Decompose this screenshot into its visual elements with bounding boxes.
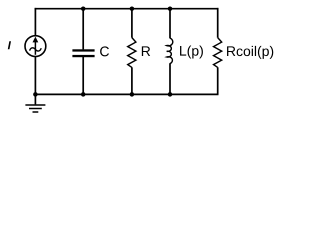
label R xyxy=(142,46,150,56)
wire R top xyxy=(131,8,133,38)
wire top rail xyxy=(35,8,219,10)
node dot L top xyxy=(168,6,173,11)
wire source bottom xyxy=(34,57,36,95)
wire bottom rail xyxy=(35,93,219,95)
current source I (AC) xyxy=(25,36,46,57)
label Rcoil(p) xyxy=(227,46,273,59)
node dot R bottom xyxy=(130,92,135,97)
node dot C bottom xyxy=(81,92,86,97)
wire Rcoil bottom xyxy=(217,67,219,94)
node dot R top xyxy=(130,6,135,11)
wire source top xyxy=(34,8,36,36)
node dot source bottom xyxy=(33,92,38,97)
label C xyxy=(100,46,109,56)
label L(p) xyxy=(180,45,203,58)
wire cap bottom xyxy=(82,57,84,94)
wire R bottom xyxy=(131,67,133,94)
capacitor C xyxy=(72,49,94,57)
resistor Rcoil(p) xyxy=(214,38,222,68)
wire L bottom xyxy=(169,63,171,94)
node dot L bottom xyxy=(168,92,173,97)
resistor R xyxy=(128,38,136,68)
wire cap top xyxy=(82,8,84,50)
node dot C top xyxy=(81,6,86,11)
ground xyxy=(25,94,45,112)
label I xyxy=(8,41,11,49)
wire L top xyxy=(169,8,171,39)
inductor L(p) xyxy=(167,38,173,63)
wire Rcoil top xyxy=(217,8,219,38)
